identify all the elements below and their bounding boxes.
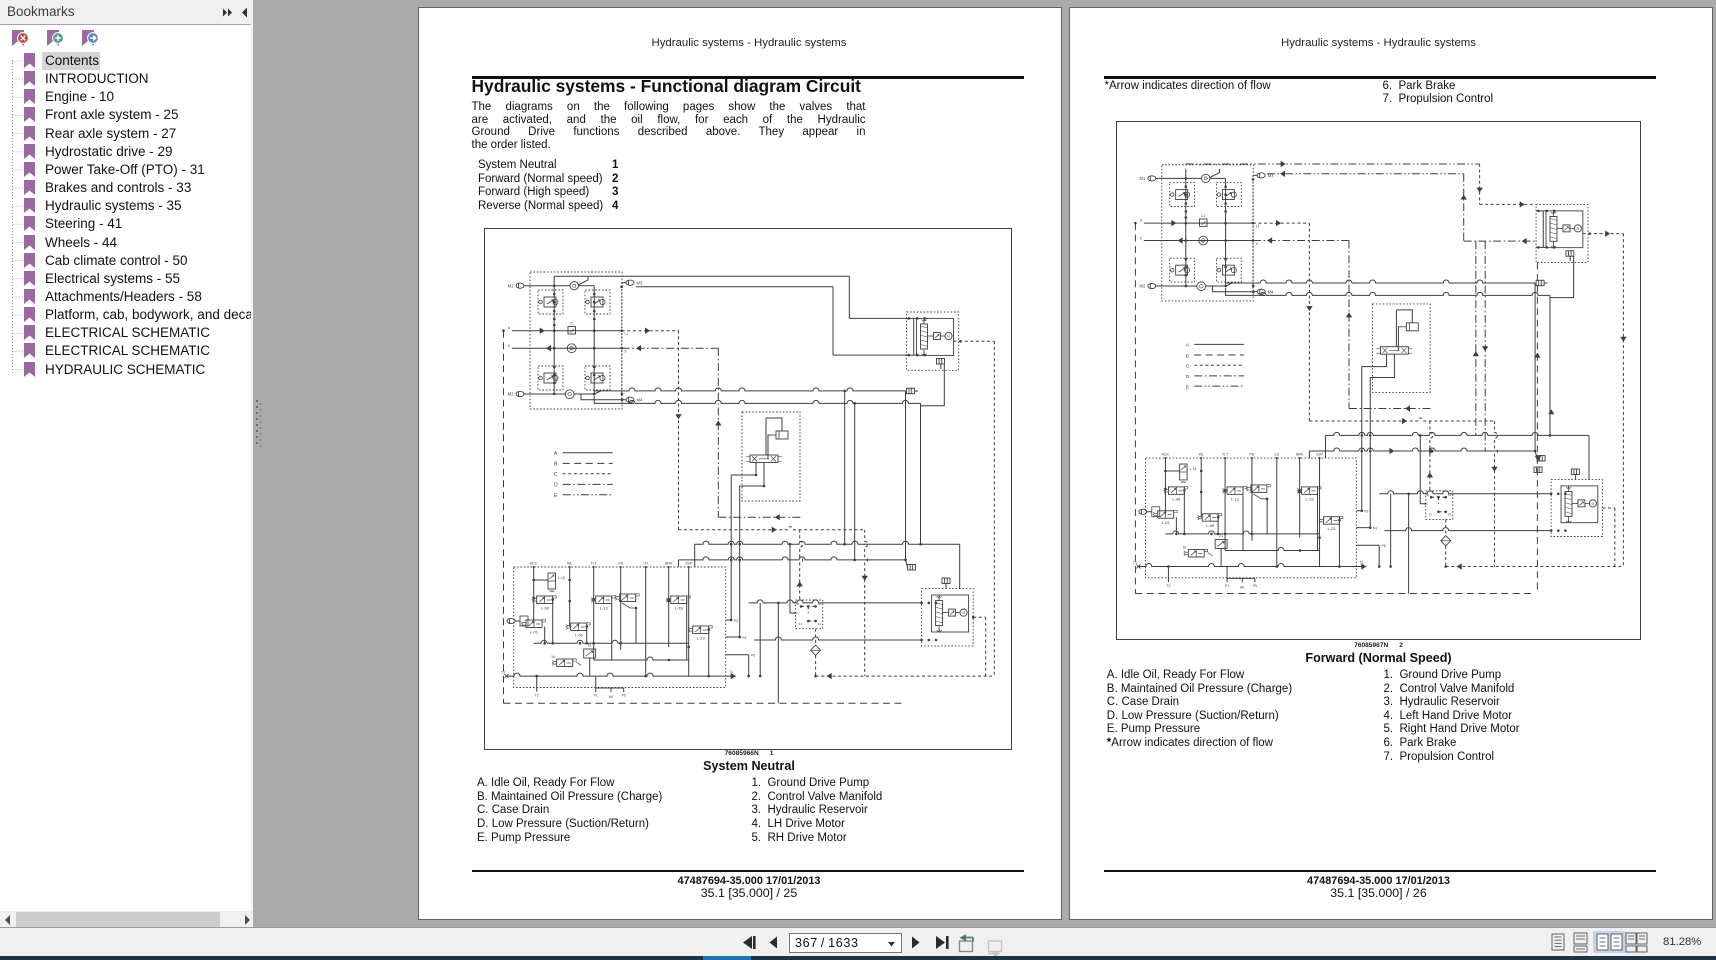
propulsion control dashed box (7 Propulsion Control) — [742, 412, 800, 501]
wire: dashed charge supply C-line — [622, 328, 682, 530]
relief valve L-01 — [1139, 506, 1177, 524]
drive motor dashed box (5 RH Drive Motor) — [922, 589, 974, 646]
wire: pump internal vertical right column — [1224, 178, 1227, 287]
accumulator charge valve L-15 — [1165, 464, 1196, 483]
wire: dash-dot return horizontal — [719, 514, 801, 520]
wire: TLT drop — [593, 567, 595, 660]
svg-text:F1: F1 — [1429, 512, 1433, 516]
servo valve sub-box top-left — [538, 290, 563, 314]
blanking plug above drive motor — [1571, 468, 1579, 479]
wire: return line lower dash-dot — [1267, 170, 1464, 176]
solenoid valve L-08 — [1164, 486, 1188, 501]
orifice component on L1 line — [568, 322, 576, 335]
svg-text:L-13: L-13 — [600, 606, 609, 611]
charge relief valve circle middle — [568, 344, 577, 353]
svg-text:M4: M4 — [637, 398, 643, 403]
wire: park brake bottom manifold line — [1536, 246, 1555, 249]
wire: lower M4-line bus — [1260, 292, 1550, 298]
svg-text:2SP: 2SP — [1316, 452, 1323, 456]
svg-text:L1: L1 — [1256, 224, 1260, 228]
pump assembly dashed enclosure (1 Ground Drive Pump) — [1162, 164, 1253, 300]
svg-text:9: 9 — [508, 344, 510, 348]
blanking plug on M-line end — [904, 388, 918, 561]
svg-text:M1: M1 — [1140, 175, 1146, 180]
accumulator charge valve L-15 — [534, 573, 565, 592]
servo valve sub-box bottom-right — [585, 366, 610, 390]
svg-text:L-28: L-28 — [1306, 496, 1315, 501]
wire: dashed charge supply C-line — [1253, 219, 1313, 420]
svg-text:C1: C1 — [570, 322, 574, 326]
wire: reservoir long-dash boundary — [1134, 221, 1535, 593]
shuttle dashed box S1 S2 — [794, 600, 823, 629]
wire: P3 P4 P6 port stubs — [726, 619, 756, 678]
svg-text:E: E — [554, 493, 558, 499]
park brake valve dashed box (6 Park Brake) — [1536, 204, 1588, 262]
wire: dashed return line right edge — [994, 342, 996, 677]
svg-text:P3: P3 — [1364, 509, 1368, 513]
svg-text:B: B — [1186, 353, 1190, 359]
blanking plug at return bus end — [906, 560, 916, 570]
svg-text:F2: F2 — [1448, 512, 1452, 516]
blanking plug above drive motor — [942, 578, 950, 589]
blanking plug below park brake — [1566, 250, 1574, 260]
propulsion spool valve — [1377, 346, 1413, 353]
wire: upper M-line bus — [1225, 279, 1535, 285]
wire: pump internal vertical left column — [1185, 168, 1188, 286]
svg-text:M3: M3 — [637, 281, 643, 286]
wire: dashed return line right edge — [1620, 233, 1626, 566]
svg-text:F2: F2 — [818, 622, 822, 626]
legend key B maintained pressure — [1186, 353, 1244, 359]
svg-text:P6: P6 — [751, 654, 755, 658]
wire: case drain line with left arrow — [508, 344, 627, 354]
svg-text:9: 9 — [1140, 236, 1142, 240]
svg-text:P5: P5 — [622, 694, 626, 698]
svg-text:A: A — [554, 451, 558, 457]
wire: propulsion outputs down to buses — [731, 463, 765, 568]
wire: LD drop — [645, 567, 648, 677]
wire: pump internal vertical left column — [553, 276, 556, 395]
wire: park brake outlet to dashed right edge — [1583, 230, 1624, 236]
svg-text:8: 8 — [508, 326, 510, 330]
pilot valve 16 — [1183, 545, 1213, 556]
relief valve L-01 — [507, 616, 546, 635]
svg-text:16: 16 — [1183, 545, 1187, 549]
wire: dash-dot case drain D-line — [1253, 237, 1352, 408]
park brake valve dashed box (6 Park Brake) — [907, 312, 959, 370]
blanking plug at return bus end — [1535, 450, 1545, 460]
svg-text:WL: WL — [1240, 585, 1245, 589]
servo valve sub-box bottom-left — [1170, 258, 1195, 282]
wire: reservoir long-dash boundary — [502, 330, 905, 704]
blanking plug below park brake — [937, 359, 945, 370]
wire: dashed return line bottom — [816, 673, 995, 679]
wire: T1 tank line — [501, 670, 736, 679]
wire: motor supply lines — [1379, 490, 1567, 593]
wire: propulsion outputs down to buses — [1362, 354, 1395, 458]
svg-text:P3: P3 — [734, 619, 738, 623]
brake cylinder in propulsion box — [772, 431, 788, 439]
park brake valve internals — [917, 318, 954, 355]
svg-text:A: A — [1186, 342, 1190, 348]
solenoid valve L-28 — [666, 596, 690, 611]
svg-text:9: 9 — [1256, 241, 1258, 245]
svg-text:T2: T2 — [535, 694, 539, 698]
wire: P1 stub — [594, 676, 626, 699]
svg-text:P4: P4 — [1373, 526, 1377, 530]
wire: forward feed line lower — [636, 287, 907, 355]
manifold top port labels — [530, 562, 693, 569]
arrow: flow arrows (forward) — [1389, 346, 1554, 454]
wire: manifold risers to buses — [1361, 434, 1372, 528]
wire: ACC drop — [1164, 458, 1167, 513]
wire: park brake top manifold line — [1536, 209, 1555, 247]
svg-text:L-06: L-06 — [1206, 523, 1215, 528]
svg-text:M1: M1 — [508, 284, 514, 289]
wire: center risers from M-lines to buses — [844, 390, 857, 562]
solenoid valve L-28 — [1297, 486, 1321, 501]
wire: M4 test port — [621, 393, 643, 403]
wire: return bus lower — [1309, 448, 1535, 458]
control valve manifold dashed box (2) — [1146, 458, 1357, 578]
shuttle dashed box S1 S2 — [1424, 490, 1452, 519]
legend key A idle oil — [1186, 342, 1244, 348]
wire: BRK drop — [1298, 458, 1301, 538]
wire: filter legs — [1444, 519, 1447, 567]
svg-text:P4: P4 — [742, 636, 746, 640]
wire: pump box right dotted edge — [1252, 175, 1254, 291]
propulsion spool valve — [746, 455, 782, 463]
svg-text:LD: LD — [644, 562, 649, 566]
drive motor internals — [1561, 485, 1598, 522]
wire: upper M-line bus — [594, 388, 906, 394]
svg-text:C: C — [554, 472, 558, 478]
legend key C case drain — [554, 472, 613, 478]
svg-text:ACC: ACC — [1162, 452, 1170, 456]
wire: pump internal vertical right column — [593, 286, 596, 396]
svg-text:C: C — [1186, 363, 1190, 369]
wire: motor outlet dashed — [972, 616, 986, 676]
svg-text:T2: T2 — [1166, 583, 1170, 587]
wire: T1 tank line — [1133, 560, 1366, 569]
filter diamond — [811, 645, 821, 655]
wire: propulsion internal loop — [766, 418, 782, 459]
svg-text:M: M — [947, 335, 950, 339]
svg-text:M: M — [1577, 226, 1580, 230]
svg-text:T1: T1 — [1360, 560, 1364, 564]
drive motor dashed box (5 RH Drive Motor) — [1551, 479, 1602, 536]
wire: dash-dot jog arrows near park brake — [1461, 163, 1537, 243]
solenoid valve L-06 — [1198, 513, 1222, 528]
svg-text:M: M — [1592, 501, 1595, 505]
svg-text:WL: WL — [567, 562, 572, 566]
pressure reducing valve PD — [615, 594, 639, 610]
svg-text:L-06: L-06 — [575, 633, 584, 638]
blanking plug on M-line end — [1534, 280, 1548, 452]
svg-text:L-15: L-15 — [558, 576, 565, 580]
brake cylinder in propulsion box — [1402, 322, 1418, 330]
legend key B maintained pressure — [554, 462, 613, 468]
wire: dashed supply horizontal — [1309, 417, 1497, 566]
wire: P1 stub — [1225, 566, 1257, 589]
wire: pump box right dotted edge — [621, 283, 623, 400]
wire: figure border frame — [485, 229, 1012, 750]
svg-text:L-28: L-28 — [675, 606, 684, 611]
wire: figure border frame — [1117, 121, 1641, 639]
wire: pump outlet steps — [1186, 282, 1265, 294]
svg-text:L-08: L-08 — [1172, 496, 1181, 501]
legend key A idle oil — [554, 451, 613, 457]
wire: motor outlet dashed — [1602, 507, 1614, 566]
svg-text:L-23: L-23 — [1327, 526, 1336, 531]
svg-text:9: 9 — [625, 350, 627, 354]
wire: ACC drop — [533, 567, 536, 622]
servo valve sub-box top-right — [1216, 182, 1241, 206]
servo valve sub-box bottom-right — [1216, 258, 1241, 282]
main pump circle bottom — [566, 390, 575, 399]
svg-text:2SP: 2SP — [686, 562, 693, 566]
wire: L1 charge line with right arrow — [508, 326, 629, 336]
svg-text:LD: LD — [1275, 452, 1280, 456]
wire: 2SP drop — [688, 567, 691, 676]
svg-text:WL: WL — [1199, 452, 1204, 456]
wire: pump loop top — [1186, 168, 1226, 177]
svg-text:L-13: L-13 — [1231, 496, 1240, 501]
wire: M1 port line — [508, 283, 555, 288]
svg-text:L-01: L-01 — [530, 630, 539, 635]
wire: propulsion internal loop — [1396, 309, 1412, 350]
legend key D low pressure — [1186, 374, 1244, 380]
wire: manifold risers to buses — [730, 543, 741, 637]
wire: dash-dot return horizontal — [1349, 405, 1431, 411]
svg-text:BRK: BRK — [1296, 452, 1304, 456]
check valve 21 — [584, 644, 596, 659]
pump assembly dashed enclosure (1 Ground Drive Pump) — [530, 272, 622, 409]
wire: park brake outlet to dashed right edge — [954, 340, 995, 343]
wire: dash-dot feeds down to buses (forward) — [1476, 241, 1538, 593]
wire: shuttle up-leg with arrow — [1419, 420, 1433, 503]
wire: manifold lower collector — [594, 657, 689, 661]
svg-text:P6: P6 — [1381, 544, 1385, 548]
wire: park brake drain down to bus — [919, 364, 944, 546]
wire: M2 port line — [508, 392, 555, 397]
svg-text:T3: T3 — [1133, 560, 1137, 564]
wire: LD drop — [1275, 458, 1278, 568]
servo valve sub-box top-left — [1170, 182, 1195, 206]
legend key D low pressure — [554, 483, 613, 489]
wire: motor supply lines — [749, 600, 938, 703]
wire: manifold internal collector — [534, 641, 689, 645]
wire: pump outlet steps — [554, 391, 634, 404]
charge pump circle top — [1202, 174, 1210, 182]
drive motor internals — [932, 595, 969, 632]
wire: forward feed line upper — [554, 276, 907, 318]
svg-text:8: 8 — [1140, 218, 1142, 222]
svg-text:C1: C1 — [1201, 213, 1205, 217]
wire: WL drop — [1200, 458, 1203, 518]
wire: forward feed line upper — [1186, 160, 1480, 166]
pressure reducing valve PD — [1246, 484, 1270, 499]
svg-text:BRK: BRK — [665, 562, 673, 566]
wire: pump loop top — [554, 276, 594, 286]
wire: lower M4-line bus — [629, 401, 921, 407]
svg-text:TLT: TLT — [1222, 452, 1229, 456]
wire: park brake bottom manifold line — [907, 354, 927, 357]
manifold top port labels — [1162, 452, 1324, 459]
servo valve sub-box top-right — [585, 290, 610, 314]
wire: shuttle up-leg with arrow — [789, 530, 803, 613]
wire: WL drop — [569, 567, 572, 627]
solenoid valve L-06 — [566, 623, 590, 638]
svg-text:PD: PD — [618, 562, 623, 566]
svg-text:P1: P1 — [1225, 583, 1229, 587]
wire: park brake top manifold line — [907, 317, 927, 355]
wire: dash-dot case drain D-line — [622, 345, 722, 517]
wire: P3 P4 P6 port stubs — [1356, 509, 1385, 567]
wire: L1 charge line with right arrow — [1140, 218, 1260, 228]
legend key E pump pressure — [554, 493, 613, 499]
wire: T2 stub — [1166, 565, 1170, 588]
check valve 21 — [1215, 534, 1227, 548]
wire: case drain line with left arrow — [1140, 236, 1258, 245]
wire: PD drop — [620, 567, 623, 650]
wire: 2SP drop — [1318, 458, 1321, 566]
wire: pressure bus upper — [695, 541, 960, 588]
svg-text:21: 21 — [588, 644, 592, 648]
svg-text:L1: L1 — [625, 332, 629, 336]
wire: return bus lower — [679, 557, 906, 567]
control valve manifold dashed box (2) — [514, 567, 726, 688]
wire: park brake drain down to bus — [1549, 256, 1574, 436]
charge relief valve circle middle — [1199, 236, 1208, 245]
wire: M3 test port — [1252, 172, 1274, 180]
svg-text:D: D — [1186, 374, 1190, 380]
svg-text:ACC: ACC — [530, 562, 538, 566]
wire: manifold lower collector — [1225, 547, 1319, 551]
wire: T2 stub — [535, 675, 539, 698]
main pump circle bottom — [1197, 281, 1206, 290]
park brake valve internals — [1546, 210, 1583, 247]
svg-text:P1: P1 — [594, 694, 598, 698]
blanking plug with down arrow (forward) — [1534, 456, 1542, 472]
svg-text:WL: WL — [609, 695, 614, 699]
svg-text:F1: F1 — [799, 622, 803, 626]
wire: M2 port line — [1140, 283, 1186, 288]
solenoid valve L-23 — [688, 626, 712, 641]
solenoid valve L-13 — [591, 596, 615, 611]
wire: filter legs — [815, 629, 818, 678]
wire: BRK drop — [668, 567, 671, 647]
legend key E pump pressure — [1186, 384, 1244, 390]
wire: TLT drop — [1224, 458, 1226, 550]
svg-text:L-23: L-23 — [697, 636, 706, 641]
wire: PD drop — [1251, 458, 1254, 541]
svg-text:M2: M2 — [1140, 283, 1146, 288]
wire: M4 test port — [1252, 284, 1274, 294]
svg-text:M: M — [963, 611, 966, 615]
wire: valve drop legs — [545, 600, 710, 678]
svg-text:D: D — [554, 483, 558, 489]
svg-text:E: E — [1186, 384, 1190, 390]
solenoid valve L-13 — [1223, 486, 1247, 501]
wire: valve drop legs — [1176, 490, 1340, 567]
wire: M1 port line — [1140, 175, 1186, 180]
legend key C case drain — [1186, 363, 1244, 369]
wire: pressure bus upper — [1326, 432, 1589, 479]
svg-text:PD: PD — [1249, 452, 1254, 456]
svg-text:T1: T1 — [729, 670, 733, 674]
pilot valve 16 — [551, 655, 581, 667]
svg-text:L-08: L-08 — [541, 606, 550, 611]
svg-text:M4: M4 — [1268, 289, 1274, 294]
wire: dashed return line bottom — [1446, 563, 1624, 569]
svg-text:B: B — [554, 462, 558, 468]
svg-text:L-01: L-01 — [1162, 520, 1171, 525]
wire: dashed supply horizontal — [679, 527, 868, 677]
svg-text:P5: P5 — [1253, 583, 1257, 587]
wire: manifold internal collector — [1165, 530, 1319, 534]
charge pump circle top — [570, 282, 578, 290]
svg-text:TLT: TLT — [591, 562, 598, 566]
servo valve sub-box bottom-left — [538, 366, 563, 390]
propulsion control dashed box (7 Propulsion Control) — [1373, 303, 1431, 391]
svg-text:T3: T3 — [501, 671, 505, 675]
filter diamond — [1441, 535, 1451, 545]
svg-text:21: 21 — [1219, 534, 1223, 538]
orifice component on L1 line — [1200, 213, 1207, 225]
wire: M3 test port — [621, 280, 644, 288]
svg-text:16: 16 — [551, 655, 555, 659]
svg-text:M2: M2 — [508, 392, 514, 397]
solenoid valve L-23 — [1319, 516, 1343, 531]
solenoid valve L-08 — [532, 596, 556, 611]
svg-text:L-15: L-15 — [1190, 466, 1197, 470]
